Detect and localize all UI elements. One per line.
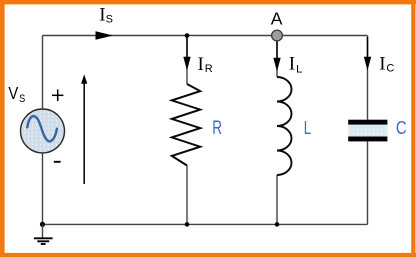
svg-text:I: I — [198, 54, 204, 75]
current arrow IR — [183, 37, 190, 71]
wire resistor branch upper — [186, 36, 188, 85]
minus polarity mark — [54, 161, 61, 163]
label IS — [99, 5, 113, 26]
voltage source VS — [21, 109, 65, 153]
inductor L — [277, 77, 292, 175]
node A junction dot — [272, 30, 283, 41]
svg-text:L: L — [304, 117, 311, 138]
svg-text:L: L — [296, 63, 302, 75]
label VS — [8, 83, 25, 105]
junction dot bottom of inductor branch — [275, 222, 280, 227]
wire capacitor branch lower — [367, 141, 369, 224]
label R — [212, 118, 222, 139]
plus polarity mark — [52, 90, 63, 102]
wire top from source to node A to capacitor branch — [43, 35, 368, 37]
svg-text:C: C — [386, 63, 394, 75]
ground — [34, 224, 53, 244]
wire inductor branch lower — [276, 175, 278, 224]
svg-text:V: V — [8, 83, 18, 103]
wire resistor branch lower — [186, 166, 188, 225]
svg-text:A: A — [271, 8, 283, 28]
svg-text:I: I — [379, 54, 385, 75]
resistor R — [172, 84, 200, 166]
capacitor C — [348, 120, 387, 142]
label A — [271, 8, 283, 28]
current arrow IC — [364, 37, 371, 71]
voltage reference up arrow — [81, 74, 87, 184]
label IR — [198, 54, 213, 75]
wire left branch lower (source to bottom wire) — [42, 153, 44, 225]
svg-text:I: I — [289, 54, 295, 75]
svg-text:S: S — [106, 14, 113, 26]
svg-text:R: R — [212, 118, 222, 139]
svg-text:S: S — [19, 93, 25, 105]
wire bottom from ground junction to capacitor branch — [43, 223, 368, 225]
label IL — [289, 54, 302, 76]
label IC — [379, 54, 394, 75]
svg-text:R: R — [205, 63, 213, 75]
label L — [304, 117, 311, 138]
label C — [396, 117, 407, 138]
svg-text:C: C — [396, 117, 407, 138]
wire inductor branch upper — [276, 36, 278, 78]
wire left branch upper (source to top wire) — [42, 36, 44, 110]
junction dot ground — [40, 222, 45, 227]
junction dot bottom of resistor branch — [185, 222, 190, 227]
wire capacitor branch upper — [367, 36, 369, 120]
current arrow IS on top wire — [96, 31, 114, 39]
junction dot top of resistor branch — [185, 33, 190, 38]
current arrow IL — [273, 42, 280, 72]
